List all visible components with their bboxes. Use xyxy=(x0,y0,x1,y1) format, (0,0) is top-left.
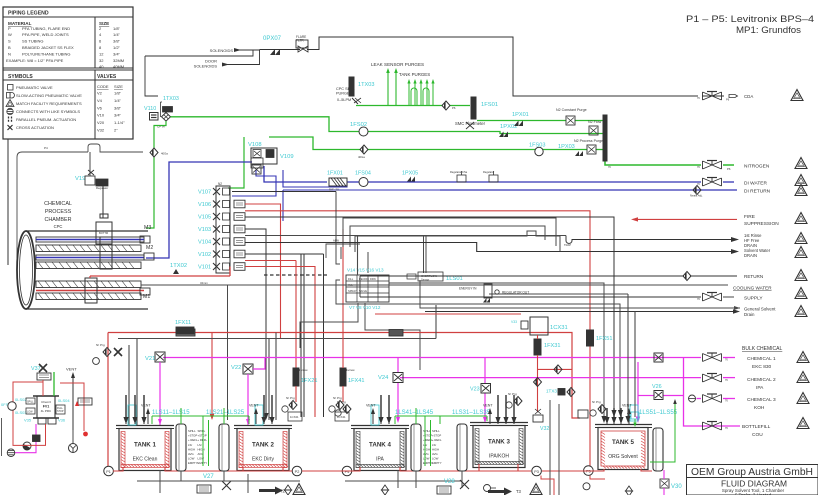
drain arrow T3 xyxy=(488,488,522,495)
svg-text:+STOP: +STOP xyxy=(188,434,197,438)
svg-text:V110: V110 xyxy=(144,106,156,112)
leak sensor purge stubs xyxy=(371,62,424,105)
legend symbols table xyxy=(6,74,125,133)
svg-text:TANK 4: TANK 4 xyxy=(369,442,391,449)
svg-text:P6: P6 xyxy=(726,98,730,102)
svg-text:HIGH: HIGH xyxy=(423,447,430,451)
facility triangle bottom2 xyxy=(530,484,542,495)
svg-text:OEM Group Austria GmbH: OEM Group Austria GmbH xyxy=(691,467,813,478)
flow sensor 1FS02 xyxy=(350,122,368,136)
wire general solvent drain xyxy=(425,309,740,313)
filter 1FX01 xyxy=(327,171,347,192)
svg-text:1LS51–1LS55: 1LS51–1LS55 xyxy=(639,410,678,416)
svg-text:Regulator: Regulator xyxy=(483,170,494,174)
svg-text:1CX31: 1CX31 xyxy=(550,325,568,331)
FIRE SUPPRESSION label xyxy=(744,214,779,227)
wire pump suction lines xyxy=(109,464,652,471)
svg-text:V14 V15 V16 V13: V14 V15 V16 V13 xyxy=(347,268,384,273)
buffer vessel table xyxy=(346,268,389,311)
wire cooling supply xyxy=(360,276,734,297)
svg-text:VENT: VENT xyxy=(366,404,376,408)
svg-text:0LS02: 0LS02 xyxy=(15,397,27,402)
wire 1st rinse drain xyxy=(245,236,739,276)
svg-text:V32: V32 xyxy=(540,426,549,432)
svg-text:V33: V33 xyxy=(511,320,517,324)
svg-text:1FX11: 1FX11 xyxy=(175,320,191,326)
wire chem1 magenta trunk xyxy=(163,357,735,359)
svg-text:TANK 3: TANK 3 xyxy=(488,439,510,446)
wire M2 blue feed xyxy=(146,257,152,259)
facility triangle fire xyxy=(795,213,807,224)
svg-text:DI RETURN: DI RETURN xyxy=(744,189,771,195)
svg-text:HIGH: HIGH xyxy=(188,447,195,451)
facility triangle DI xyxy=(795,175,807,186)
valve V21 xyxy=(145,352,165,425)
svg-text:CHEMICAL 3: CHEMICAL 3 xyxy=(747,397,776,403)
svg-text:ABW: ABW xyxy=(333,239,339,243)
svg-text:1PX02: 1PX02 xyxy=(500,124,517,130)
1st rinse drain label xyxy=(744,233,762,248)
DI WATER label xyxy=(744,181,767,187)
wire CDA supply xyxy=(260,37,725,96)
page border left xyxy=(1,418,3,456)
SUPPLY label xyxy=(744,296,763,302)
valve NITROGEN xyxy=(703,161,722,170)
drain arrow T2 xyxy=(259,487,286,495)
svg-text:0–5LPM: 0–5LPM xyxy=(337,98,351,102)
svg-text:V21: V21 xyxy=(145,356,155,362)
svg-text:1CX41: 1CX41 xyxy=(337,415,346,419)
svg-text:V32: V32 xyxy=(97,128,105,133)
level status labels xyxy=(432,429,442,465)
svg-text:V102: V102 xyxy=(198,252,211,258)
drain collector T4/T3 xyxy=(285,470,497,495)
tank TANK 5 xyxy=(595,425,652,470)
valve chem1 xyxy=(703,353,722,362)
wire FV1 magenta out xyxy=(7,424,40,457)
filter 1FX51 xyxy=(587,330,613,466)
svg-text:CODE: CODE xyxy=(97,84,109,89)
BULK CHEMICAL labels xyxy=(742,346,783,438)
svg-text:V35: V35 xyxy=(24,418,32,423)
wire chem1 right vertical xyxy=(684,358,741,427)
svg-text:VENT: VENT xyxy=(66,367,77,372)
flow sensor 0FS01 xyxy=(1,402,16,410)
svg-text:FLTR: FLTR xyxy=(296,39,304,43)
svg-text:CDA: CDA xyxy=(744,94,753,99)
valve bottlefill xyxy=(701,422,746,431)
svg-text:BULK CHEMICAL: BULK CHEMICAL xyxy=(742,346,783,352)
svg-text:Sensor: Sensor xyxy=(421,278,429,282)
svg-text:FV1: FV1 xyxy=(43,405,50,409)
n2 purge symbols T4 xyxy=(335,400,351,416)
svg-text:V107: V107 xyxy=(198,190,211,196)
svg-text:V30: V30 xyxy=(671,484,682,490)
svg-text:P1: P1 xyxy=(106,470,111,474)
svg-text:P6: P6 xyxy=(452,106,456,110)
tank feed pipes xyxy=(123,395,146,424)
svg-text:1FX21: 1FX21 xyxy=(301,378,317,384)
svg-text:P3: P3 xyxy=(534,470,539,474)
svg-text:FILL: FILL xyxy=(348,277,354,281)
svg-text:HIGH: HIGH xyxy=(432,447,439,451)
tank TANK 1 xyxy=(116,426,174,471)
valve V110 CDA inlet xyxy=(144,96,179,129)
CPC seal purge flowmeter xyxy=(336,77,374,104)
svg-text:IPA/KOH: IPA/KOH xyxy=(489,454,509,460)
legend box frame xyxy=(3,7,133,139)
svg-text:VENT: VENT xyxy=(622,404,632,408)
svg-text:1/8": 1/8" xyxy=(114,91,122,96)
level status labels xyxy=(198,429,208,465)
facility triangle return xyxy=(795,270,807,281)
svg-text:Regulator 0.5a: Regulator 0.5a xyxy=(450,170,468,174)
pump P1 xyxy=(104,466,114,476)
wire M1 red feed xyxy=(89,276,91,278)
drain T5 xyxy=(550,400,633,495)
valve CDA xyxy=(703,92,722,101)
svg-text:1FX41: 1FX41 xyxy=(348,378,364,384)
svg-text:1PX01: 1PX01 xyxy=(512,112,529,118)
svg-text:B: B xyxy=(8,45,11,50)
svg-text:SLOW-ACTING PNEUMATIC VALVE: SLOW-ACTING PNEUMATIC VALVE xyxy=(16,93,82,98)
svg-text:1PX05: 1PX05 xyxy=(402,171,418,177)
facility triangle DI return xyxy=(795,185,807,196)
n2 purge symbols T2 xyxy=(329,396,349,421)
wire gray drain trunk xyxy=(118,305,436,425)
filter 1FX11 xyxy=(175,320,194,334)
svg-text:DI WATER: DI WATER xyxy=(744,181,767,187)
CDA flag xyxy=(726,94,753,102)
wire tank downpipes xyxy=(583,250,635,423)
tank TANK 2 xyxy=(234,426,292,471)
svg-text:EKC 830: EKC 830 xyxy=(752,364,772,370)
svg-text:IPA: IPA xyxy=(756,385,764,391)
svg-text:+STOP: +STOP xyxy=(198,434,207,438)
svg-text:SPILL: SPILL xyxy=(27,401,34,404)
svg-text:1TX03: 1TX03 xyxy=(163,96,179,102)
FV1 cyan labels xyxy=(15,397,70,423)
svg-text:CROSS ACTUATION: CROSS ACTUATION xyxy=(16,125,54,130)
svg-text:LOW: LOW xyxy=(423,457,430,461)
svg-text:N² Prg: N² Prg xyxy=(286,396,295,400)
valve manifold V101-V107 xyxy=(198,182,245,273)
svg-text:ORG Solvent: ORG Solvent xyxy=(608,454,638,460)
svg-text:1FX01: 1FX01 xyxy=(327,171,343,177)
svg-text:TANK 1: TANK 1 xyxy=(134,442,156,449)
tank vent xyxy=(249,404,259,425)
N2 purge top symbols xyxy=(93,343,122,364)
svg-text:SYMBOLS: SYMBOLS xyxy=(8,74,33,80)
facility triangle drain1 xyxy=(795,233,807,244)
svg-text:EMPTY: EMPTY xyxy=(188,461,198,465)
pump P2 xyxy=(292,466,302,476)
svg-text:P5: P5 xyxy=(586,470,591,474)
wire chem3 magenta xyxy=(483,358,735,424)
svg-text:P2: P2 xyxy=(295,470,300,474)
svg-text:Chem3: Chem3 xyxy=(41,400,51,404)
svg-text:N2 Flow: N2 Flow xyxy=(588,120,602,124)
wire FV1 red loop xyxy=(13,382,84,431)
tank feed pipes xyxy=(261,395,274,424)
svg-text:AVG: AVG xyxy=(188,452,194,456)
svg-text:COOLING WATER: COOLING WATER xyxy=(733,286,772,291)
tank vent xyxy=(622,404,632,425)
n2 purge symbols T1 xyxy=(282,396,302,421)
svg-text:DIF–20: DIF–20 xyxy=(329,188,339,192)
svg-text:RECIRC: RECIRC xyxy=(359,277,369,281)
valve V30 xyxy=(660,470,682,495)
svg-text:AVG: AVG xyxy=(432,452,438,456)
svg-text:V104: V104 xyxy=(198,240,211,246)
svg-text:EMPTY: EMPTY xyxy=(198,461,208,465)
wire cooling return xyxy=(360,272,737,281)
valve V26 xyxy=(652,384,663,400)
svg-text:P1 – P5: Levitronix BPS–4: P1 – P5: Levitronix BPS–4 xyxy=(686,14,814,24)
wire FV1 green xyxy=(53,372,55,396)
svg-text:SPRAY: SPRAY xyxy=(348,289,357,293)
svg-text:V6: V6 xyxy=(97,105,103,110)
pump P4 xyxy=(342,466,352,476)
svg-text:1FX31: 1FX31 xyxy=(544,343,560,349)
facility triangle bottom1 xyxy=(293,484,305,495)
svg-text:T3: T3 xyxy=(516,489,522,494)
standpipe column xyxy=(411,424,421,471)
svg-text:1LS11–1LS15: 1LS11–1LS15 xyxy=(152,410,190,416)
standpipe column xyxy=(219,424,229,471)
svg-text:PROCESS: PROCESS xyxy=(45,209,72,215)
svg-text:LS/: LS/ xyxy=(432,443,436,447)
pump P5 xyxy=(584,466,594,476)
facility triangles chems xyxy=(797,352,809,429)
wire FV1 vent down xyxy=(69,430,78,453)
wire pump drains T3 T5 xyxy=(541,476,605,495)
svg-text:RETURN: RETURN xyxy=(744,274,763,279)
svg-text:SIZE: SIZE xyxy=(114,84,123,89)
standpipe column xyxy=(653,428,663,471)
svg-text:1LS41–1LS45: 1LS41–1LS45 xyxy=(395,410,434,416)
svg-text:V10: V10 xyxy=(97,113,105,118)
svg-text:PNEUMATIC VALVE: PNEUMATIC VALVE xyxy=(16,85,53,90)
svg-text:PARALLEL PNEUM. ACTUATION: PARALLEL PNEUM. ACTUATION xyxy=(16,117,76,122)
svg-text:N2: N2 xyxy=(218,182,222,186)
svg-text:1-1/4": 1-1/4" xyxy=(114,120,125,125)
svg-text:TANK PURGES: TANK PURGES xyxy=(399,72,430,77)
svg-text:N² Prg: N² Prg xyxy=(592,400,601,404)
standpipe column xyxy=(176,424,186,471)
pipe size ticks xyxy=(608,97,728,430)
check valve process purge xyxy=(360,145,368,154)
overflow sensor 1LS01 xyxy=(407,272,463,282)
svg-text:AVG: AVG xyxy=(423,452,429,456)
svg-text:FIRE: FIRE xyxy=(744,214,755,220)
heater 1FX41 xyxy=(340,333,364,403)
valve N2 flow xyxy=(588,120,602,135)
svg-text:1/4": 1/4" xyxy=(114,98,122,103)
svg-text:SS TUBING: SS TUBING xyxy=(22,39,44,44)
svg-text:DRAIN: DRAIN xyxy=(744,253,757,258)
regulator V19 xyxy=(75,152,108,218)
standpipe column xyxy=(457,424,467,471)
NITROGEN label xyxy=(727,164,770,172)
svg-text:4L PRC: 4L PRC xyxy=(41,409,52,413)
valve supply xyxy=(703,293,722,302)
svg-text:Regulator: Regulator xyxy=(96,186,108,190)
svg-text:0LS04: 0LS04 xyxy=(58,398,70,403)
svg-text:M3: M3 xyxy=(144,225,151,231)
svg-text:COU: COU xyxy=(752,432,763,438)
facility triangle drain2 xyxy=(795,247,807,258)
svg-text:V4: V4 xyxy=(97,98,103,103)
svg-text:M2: M2 xyxy=(146,245,153,251)
wire fire suppression xyxy=(631,217,737,221)
pump 0PX07 xyxy=(263,36,282,55)
svg-text:V101: V101 xyxy=(198,265,211,271)
svg-text:V109: V109 xyxy=(280,154,294,160)
svg-text:0LS03: 0LS03 xyxy=(15,410,27,415)
valve DI WATER xyxy=(703,178,722,187)
svg-text:1PX03: 1PX03 xyxy=(558,144,575,150)
svg-text:NITROGEN: NITROGEN xyxy=(744,164,770,170)
pump 1PX05 xyxy=(402,171,418,182)
valve block V108 V109 xyxy=(248,142,294,174)
svg-text:EKC Dirty: EKC Dirty xyxy=(252,457,274,463)
spray bar M2 xyxy=(36,237,154,269)
svg-text:2": 2" xyxy=(114,128,118,133)
svg-text:ENERGY IN: ENERGY IN xyxy=(459,287,477,291)
svg-text:V106: V106 xyxy=(198,202,211,208)
svg-text:V28: V28 xyxy=(444,479,455,485)
tank feed pipes xyxy=(378,395,391,424)
CPC cylinder body xyxy=(17,231,148,309)
svg-text:S: S xyxy=(8,39,11,44)
svg-text:LS/: LS/ xyxy=(198,443,202,447)
svg-text:LOW: LOW xyxy=(27,411,33,414)
level sensors tanks 1-2 xyxy=(128,405,263,466)
svg-text:CHAMBER: CHAMBER xyxy=(45,217,72,223)
tank vent xyxy=(141,404,151,425)
svg-text:IPA: IPA xyxy=(376,457,384,463)
svg-text:N² Prg: N² Prg xyxy=(337,400,346,404)
svg-text:3/8": 3/8" xyxy=(113,39,121,44)
title block xyxy=(687,465,818,495)
pump note text xyxy=(686,14,814,35)
svg-text:+ REFL: + REFL xyxy=(432,438,442,442)
svg-text:V2: V2 xyxy=(97,91,103,96)
svg-text:KOH: KOH xyxy=(754,405,765,411)
svg-text:POLYURETHANE TUBING: POLYURETHANE TUBING xyxy=(22,51,71,56)
level status labels xyxy=(423,429,433,465)
svg-text:40: 40 xyxy=(99,64,104,69)
inline heater on trunk 2 xyxy=(389,330,403,337)
svg-text:TANK 5: TANK 5 xyxy=(612,439,634,446)
svg-text:34mm: 34mm xyxy=(200,281,208,285)
svg-text:TRAP: TRAP xyxy=(564,243,571,247)
CPC text xyxy=(44,201,72,229)
chamber enclosure outline xyxy=(17,144,143,258)
FV1 vessel xyxy=(33,396,59,424)
svg-text:VENT: VENT xyxy=(249,404,259,408)
svg-text:LOW: LOW xyxy=(432,457,439,461)
pump 1PX01 xyxy=(512,112,529,126)
svg-text:40Ga: 40Ga xyxy=(358,155,365,159)
wire long drain line xyxy=(141,244,728,285)
DI regulator xyxy=(450,170,498,182)
FV1 vent xyxy=(66,367,77,431)
svg-text:3/8": 3/8" xyxy=(114,105,122,110)
N2 manifold bar xyxy=(603,115,607,161)
svg-text:V36: V36 xyxy=(58,418,66,423)
svg-text:MP1: Grundfos: MP1: Grundfos xyxy=(736,25,801,35)
svg-text:0PX07: 0PX07 xyxy=(263,36,282,42)
svg-text:V105: V105 xyxy=(198,215,211,221)
pump 1PX02 xyxy=(499,124,517,137)
tank feed pipes xyxy=(604,408,623,424)
check valve green header xyxy=(442,101,450,110)
FV1 small boxes xyxy=(26,398,92,436)
svg-text:SUPPRESSION: SUPPRESSION xyxy=(744,221,779,227)
drain collector T1/T2 xyxy=(137,470,300,493)
svg-text:AVG: AVG xyxy=(198,452,204,456)
svg-text:1/2": 1/2" xyxy=(113,45,121,50)
valve N2 process purge xyxy=(558,139,603,156)
svg-text:EKC Clean: EKC Clean xyxy=(133,457,158,463)
svg-text:SUPPLY: SUPPLY xyxy=(744,296,763,302)
svg-text:CPC: CPC xyxy=(54,224,63,229)
svg-text:3/4": 3/4" xyxy=(113,51,121,56)
facility triangle CDA xyxy=(791,90,803,101)
svg-text:P6: P6 xyxy=(727,167,731,171)
check valve DI return xyxy=(690,186,703,198)
svg-text:N: N xyxy=(8,51,11,56)
svg-text:1TX03: 1TX03 xyxy=(358,82,374,88)
svg-text:SOLENOIDS: SOLENOIDS xyxy=(210,48,234,53)
svg-text:STOP: STOP xyxy=(57,410,64,413)
facility triangle gen drain xyxy=(795,306,807,317)
svg-text:1LS31–1LS35: 1LS31–1LS35 xyxy=(452,410,491,416)
svg-text:W: W xyxy=(8,32,12,37)
svg-text:BRAIDED JACKET SS FLEX: BRAIDED JACKET SS FLEX xyxy=(22,45,74,50)
svg-text:BOTTM: BOTTM xyxy=(99,231,108,235)
wire center loop piping xyxy=(232,192,740,418)
heater energy in xyxy=(459,284,529,303)
valve V25 on trunk xyxy=(654,353,663,362)
wire column drains xyxy=(181,471,462,488)
svg-text:1FS01: 1FS01 xyxy=(481,102,498,108)
svg-text:DRN: DRN xyxy=(370,277,376,281)
svg-text:SPILL: SPILL xyxy=(432,429,440,433)
svg-text:+ REFL: + REFL xyxy=(188,438,198,442)
wire V101 to M1 xyxy=(229,268,231,276)
valve V23 xyxy=(470,384,491,394)
solvent water drain label xyxy=(744,248,771,258)
wire red chem trunk xyxy=(108,250,580,466)
valve V37 xyxy=(31,364,51,396)
svg-text:40Ga: 40Ga xyxy=(161,152,168,156)
regulator on CDA line xyxy=(296,35,308,52)
heater 1FX21 xyxy=(293,368,317,402)
flow sensor 1FS04 xyxy=(355,171,371,187)
svg-text:P: P xyxy=(8,26,11,31)
svg-text:V23: V23 xyxy=(470,387,480,393)
svg-text:CHEMICAL 1: CHEMICAL 1 xyxy=(747,356,776,362)
tank purge stubs xyxy=(399,72,435,105)
check valve left green xyxy=(150,148,168,157)
RETURN label xyxy=(744,274,763,279)
wire chem2 magenta xyxy=(396,358,735,424)
label 1TX02 xyxy=(170,263,187,274)
svg-text:N2 Process Purge: N2 Process Purge xyxy=(574,139,603,143)
